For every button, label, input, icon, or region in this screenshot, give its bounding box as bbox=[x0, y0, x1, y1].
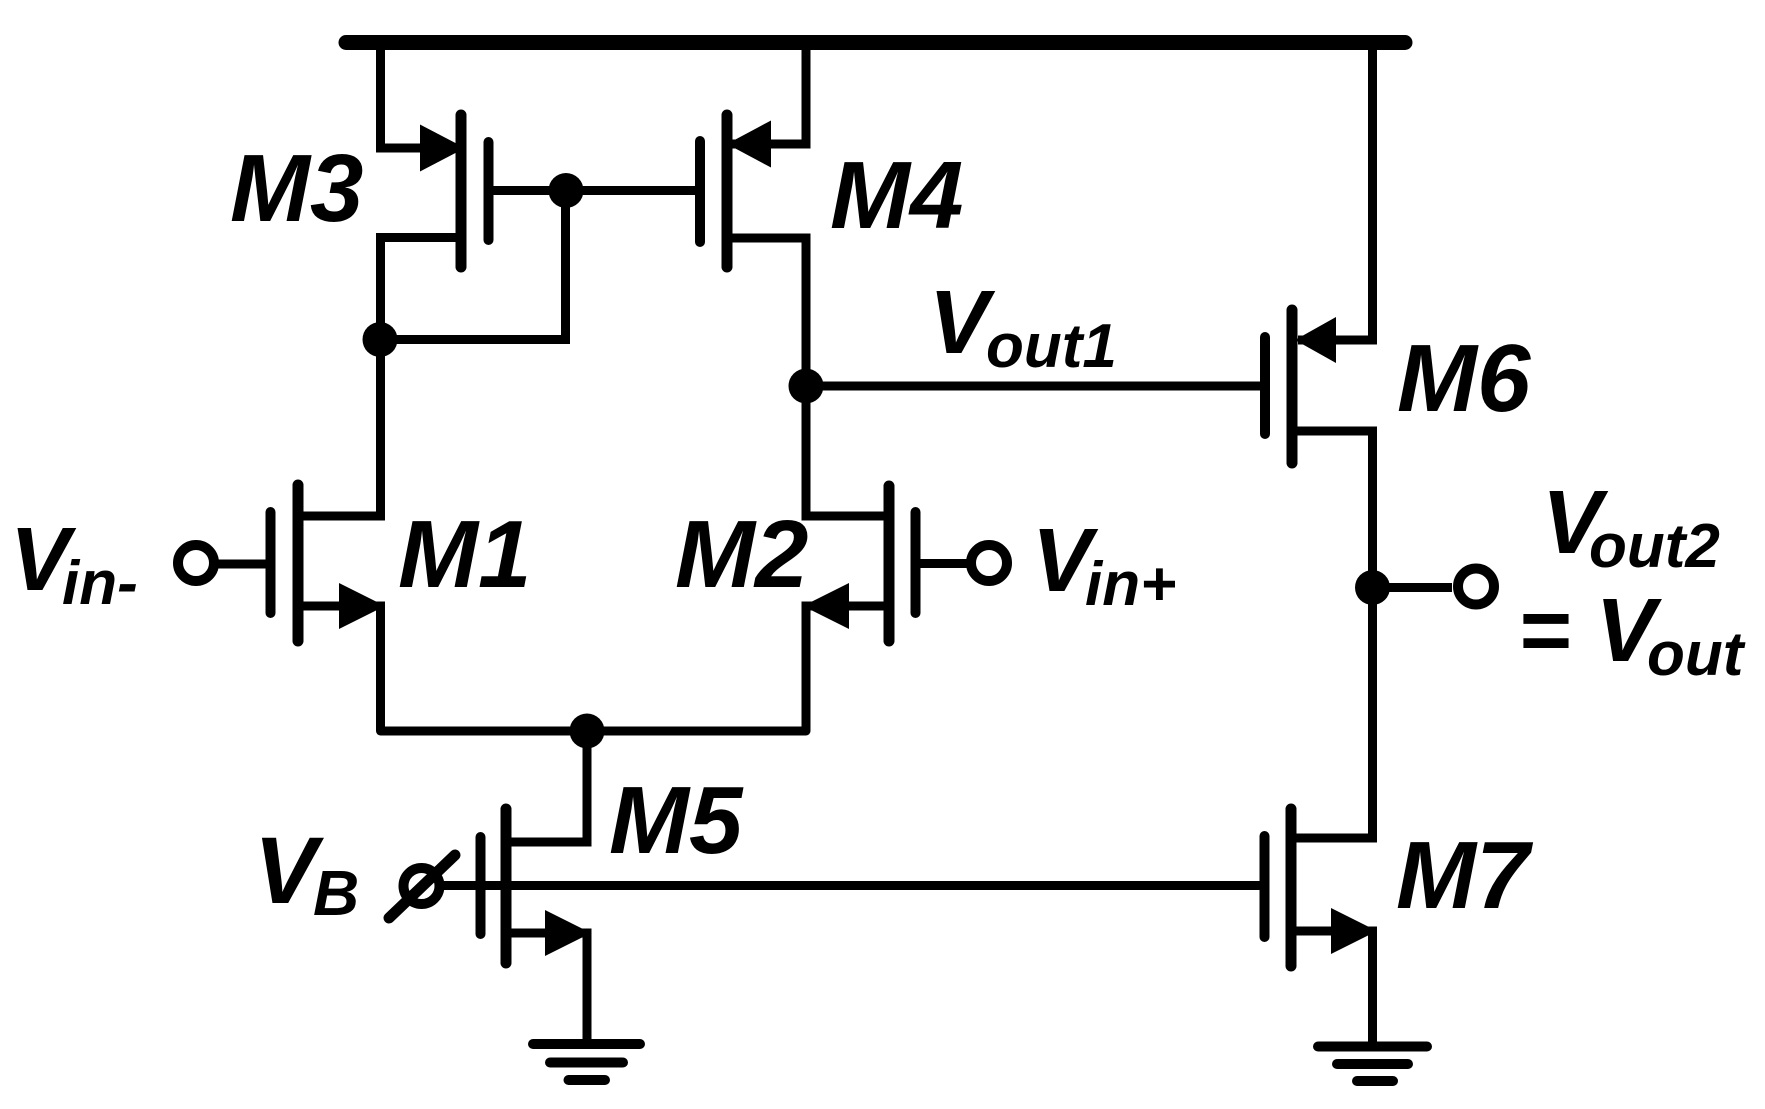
svg-text:M6: M6 bbox=[1397, 325, 1531, 432]
svg-text:out1: out1 bbox=[986, 312, 1117, 381]
wire M1 gate lead bbox=[214, 560, 266, 569]
wire M2 source to tail bbox=[806, 606, 889, 731]
VDD rail bbox=[346, 35, 1405, 50]
ground (M7) bbox=[1318, 1047, 1427, 1082]
svg-text:out: out bbox=[1647, 620, 1746, 689]
wire VB line to M5 and M7 gates bbox=[442, 881, 1260, 890]
node Vout2 bbox=[1355, 570, 1390, 605]
wire M5 source to ground bbox=[506, 933, 587, 1041]
svg-text:M2: M2 bbox=[675, 501, 808, 608]
wire Vout2 stub bbox=[1373, 583, 1453, 592]
svg-text:in-: in- bbox=[62, 549, 138, 618]
transistor M6 bbox=[1265, 310, 1292, 463]
ground (M5) bbox=[533, 1044, 640, 1080]
node Vout1 bbox=[789, 369, 824, 404]
wire tail node bbox=[381, 727, 807, 736]
wire Vout1 node to M6 gate bbox=[806, 382, 1260, 391]
svg-text:B: B bbox=[313, 857, 359, 929]
wire M1 source to tail bbox=[298, 606, 381, 731]
transistor M7 bbox=[1265, 809, 1292, 966]
transistor M4 bbox=[700, 115, 727, 267]
wire M3 gate to M4 gate bbox=[493, 186, 696, 195]
terminal Vin+ bbox=[971, 545, 1007, 581]
transistor M1 bbox=[271, 485, 299, 641]
node M3 drain bbox=[363, 322, 398, 357]
terminal Vout2 bbox=[1458, 569, 1494, 605]
wire M4 drain down to M2 drain bbox=[727, 238, 889, 516]
svg-text:out2: out2 bbox=[1589, 512, 1720, 581]
wire M3 drain down to M1 drain bbox=[298, 238, 458, 517]
transistor M3 bbox=[461, 115, 489, 267]
svg-text:M3: M3 bbox=[230, 135, 363, 242]
svg-text:M5: M5 bbox=[609, 767, 744, 874]
wire VDD to M6 source bbox=[1298, 44, 1373, 340]
transistor M5 bbox=[481, 809, 507, 963]
node tail bbox=[570, 714, 605, 749]
wire M6 drain down to M7 drain bbox=[1291, 431, 1373, 838]
transistor M2 bbox=[889, 486, 916, 641]
node gate of M3/M4 bbox=[549, 173, 584, 208]
svg-text:M7: M7 bbox=[1396, 822, 1534, 929]
wire VDD to M3 source bbox=[381, 44, 459, 148]
wire VDD to M4 source bbox=[730, 44, 806, 144]
svg-text:= V: = V bbox=[1518, 581, 1663, 681]
wire M7 source to ground bbox=[1291, 931, 1373, 1043]
wire M2 gate lead bbox=[920, 559, 967, 568]
terminal Vin- bbox=[178, 545, 214, 581]
svg-text:M1: M1 bbox=[398, 501, 531, 608]
wire tail to M5 drain bbox=[506, 731, 587, 842]
svg-text:in+: in+ bbox=[1085, 550, 1176, 619]
wire gate node down to drain node (diode connection) bbox=[381, 191, 566, 340]
svg-text:M4: M4 bbox=[830, 142, 963, 249]
terminal VB bbox=[404, 868, 440, 904]
